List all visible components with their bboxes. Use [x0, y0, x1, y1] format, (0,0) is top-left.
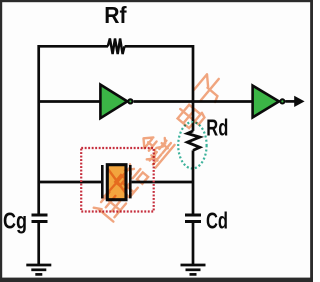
wire Cg to ground [37, 222, 40, 265]
wire right vertical rail lower [192, 150, 195, 215]
wire U2 output stub [285, 100, 296, 103]
wire inverter input row [39, 100, 101, 103]
watermark char 1 [94, 189, 128, 223]
watermark char 5 [192, 71, 228, 108]
ground under Cg [26, 265, 51, 274]
resistor Rf [108, 39, 125, 55]
wire U1 output to U2 input [134, 100, 253, 103]
watermark char 3 [134, 127, 175, 168]
svg-text:Cd: Cd [206, 207, 228, 233]
crystal Y1 right plate [129, 165, 132, 198]
dashed highlight ellipse around Rd [178, 122, 206, 168]
resistor Rd [187, 131, 200, 151]
capacitor Cg bottom plate [32, 220, 48, 223]
wire right vertical rail upper [192, 45, 195, 131]
svg-text:Rd: Rd [206, 115, 228, 141]
svg-text:Rf: Rf [104, 2, 127, 28]
capacitor Cg top plate [32, 214, 48, 217]
dashed highlight box around crystal [81, 148, 154, 212]
ground under Cd [181, 265, 206, 274]
op-amp U1 inverter [100, 85, 132, 119]
output arrowhead [294, 96, 304, 107]
wire crystal row left [39, 181, 102, 184]
wire left vertical rail [37, 45, 40, 216]
capacitor Cd bottom plate [185, 220, 201, 223]
watermark char 2 [115, 162, 149, 197]
wire Cd to ground [192, 222, 195, 265]
wire top feedback rail left segment [39, 45, 108, 48]
svg-text:Cg: Cg [3, 207, 27, 233]
crystal Y1 body [107, 165, 126, 200]
watermark char 4 [174, 101, 205, 132]
crystal Y1 left plate [101, 165, 104, 198]
wire crystal row right [132, 181, 193, 184]
watermark stroke across crystal body [103, 168, 131, 199]
op-amp U2 output inverter [253, 86, 285, 118]
capacitor Cd top plate [185, 214, 201, 217]
watermark hanzi strokes (drawn as paths, multiply blend) [94, 71, 228, 223]
wire top feedback rail right segment [125, 45, 193, 48]
